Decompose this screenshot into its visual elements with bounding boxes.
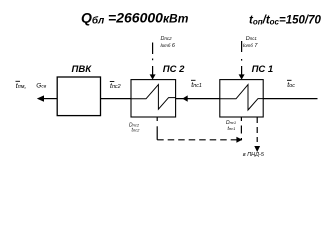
svg-text:iотб 7: iотб 7: [243, 43, 258, 49]
svg-text:Dпс1: Dпс1: [246, 36, 258, 42]
svg-text:tоп/tос=150/70: tоп/tос=150/70: [249, 14, 321, 26]
svg-text:tпс2: tпс2: [132, 128, 141, 134]
wire: main line ПВК to ПС 2: [101, 98, 132, 100]
boiler ПВК box: [57, 77, 100, 116]
svg-text:ПВК: ПВК: [72, 64, 93, 75]
svg-text:tпс1: tпс1: [191, 82, 202, 89]
drain line from ПС 1 to ПНД-5 (dashed, down): [256, 117, 258, 123]
heater ПС 1 box: [220, 80, 263, 117]
overbar of t̄пс1: [191, 79, 196, 81]
steam line into ПС 1 (dash-dot): [241, 41, 243, 52]
wire: network water outlet from ПВК to left arrow: [44, 98, 58, 100]
svg-text:ПС 2: ПС 2: [163, 64, 185, 75]
arrowhead: steam into ПС 2: [150, 74, 156, 79]
overbar of t̄пм: [16, 80, 21, 82]
heater ПС 2 box: [131, 80, 176, 117]
svg-text:iотб 6: iотб 6: [161, 43, 176, 49]
drain line from ПС 1 (dashed, down to junction): [240, 117, 242, 121]
heater ПС 1 heat-exchanger zigzag: [220, 85, 263, 110]
overbar of t̄пс2: [110, 81, 115, 83]
heater ПС 2 heat-exchanger zigzag: [131, 85, 176, 110]
svg-text:в ПНД-5: в ПНД-5: [243, 152, 265, 158]
svg-text:Qбл =266000кВт: Qбл =266000кВт: [81, 9, 189, 26]
wire: return main line into ПС 1: [263, 98, 317, 100]
arrowhead: flow into ПС 2 (left): [182, 95, 187, 101]
svg-text:tос: tос: [287, 82, 295, 89]
svg-text:tпс1: tпс1: [228, 126, 236, 132]
arrowhead: ПС 2 drain into ПС 1 drain: [236, 137, 242, 143]
svg-text:ПС 1: ПС 1: [252, 64, 274, 75]
steam line into ПС 2 (dash-dot): [152, 43, 154, 55]
svg-text:tпс2: tпс2: [110, 83, 121, 90]
drain line from ПС 2 (dashed, down): [156, 117, 158, 121]
svg-text:Dпс2: Dпс2: [161, 36, 173, 42]
arrowhead: drain to ПНД-5 (down): [254, 146, 260, 152]
arrowhead: steam into ПС 1: [239, 74, 245, 79]
svg-text:tпм,: tпм,: [16, 83, 27, 90]
overbar of t̄ос: [287, 79, 292, 81]
wire: main line ПС 1 to ПС 2: [176, 98, 220, 100]
svg-text:Gсв: Gсв: [36, 83, 46, 90]
arrowhead: network water to supply main (left): [37, 95, 44, 101]
drain line from ПС 2 (dashed, right to ПС 1 drain): [157, 139, 236, 141]
